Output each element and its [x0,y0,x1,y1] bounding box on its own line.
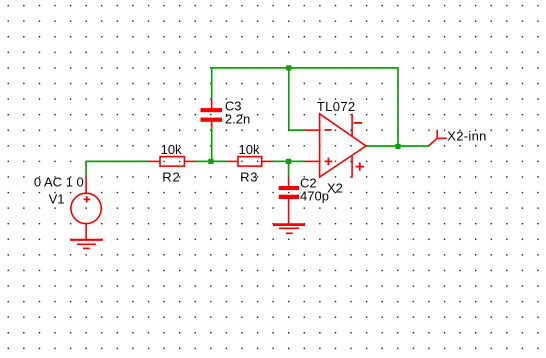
capacitor C3 [201,99,223,128]
svg-text:X2: X2 [327,180,343,195]
wire C3 top [211,68,213,99]
svg-text:R3: R3 [240,169,258,184]
svg-text:470p: 470p [300,188,329,203]
wire V1 to R2 [86,160,148,162]
ground below V1 [70,240,103,249]
svg-text:TL072: TL072 [317,99,356,114]
ground below C2 [273,225,305,234]
wire C3 bottom [211,128,213,162]
wire R2 to R3 [195,160,227,162]
svg-text:V1: V1 [49,191,65,206]
op-amp X2 TL072 [305,114,366,178]
voltage source V1 [71,177,101,239]
svg-text:10k: 10k [239,142,260,157]
resistor R3 [227,157,273,167]
wire top feedback horizontal [212,67,398,69]
wire down to C2 [288,161,290,177]
svg-text:0 AC 1 0: 0 AC 1 0 [34,174,84,189]
node junction R2-R3 [208,159,213,164]
port flag X2-inn [429,130,447,146]
svg-text:2.2n: 2.2n [225,112,250,127]
wire op-amp output [366,145,398,147]
wire mid vertical to inverting input [288,68,290,130]
wire right vertical feedback [397,68,399,146]
capacitor C2 [279,177,299,224]
wire R3 to op-amp plus input [273,160,305,162]
svg-text:R2: R2 [162,169,180,184]
wire down to V1 [85,161,87,177]
svg-text:X2-inn: X2-inn [447,129,486,144]
wire to inverting input [289,129,305,131]
node junction top wire [286,65,291,70]
node junction C2 [286,159,291,164]
resistor R2 [148,157,196,167]
wire output to port [398,145,429,147]
svg-text:10k: 10k [161,142,182,157]
node junction output [395,144,400,149]
